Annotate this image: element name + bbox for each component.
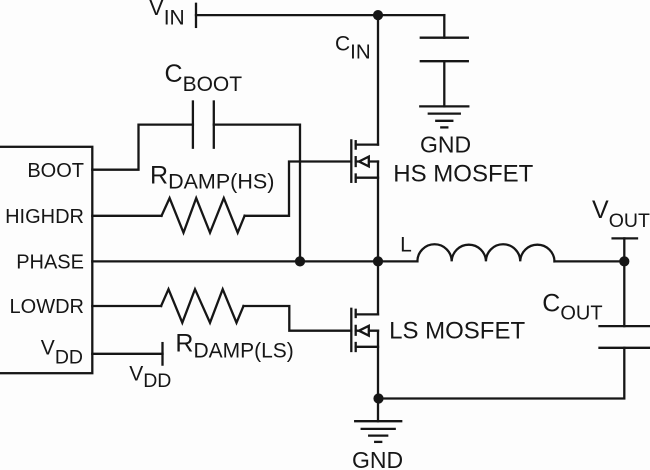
junction dot CBOOT/PHASE [295,256,305,266]
svg-text:GND: GND [420,131,471,157]
inductor L [417,244,554,261]
wire CBOOT to phase node [214,125,300,262]
wire LS source to ground [377,331,379,422]
svg-text:VOUT: VOUT [592,196,650,232]
ground (output) [355,421,401,442]
VOUT terminal bar [613,238,637,261]
svg-text:CIN: CIN [335,32,371,63]
node VOUT dot [619,256,629,266]
wire CIN to ground [443,61,445,106]
wire PHASE pin [92,260,378,262]
transistor HS MOSFET Q1 [351,140,378,181]
wire CIN drop [443,15,445,38]
IC driver box U1 [0,147,92,373]
svg-text:VDD: VDD [41,336,83,368]
wire RDAMP(LS) to LS gate [244,306,352,331]
wire inductor to VOUT node [555,260,625,262]
svg-text:CBOOT: CBOOT [165,60,243,96]
wire HIGHDR pin [92,215,161,217]
wire trunk VIN to HS drain [377,15,379,145]
resistor RDAMP(HS) [162,198,245,233]
svg-text:VIN: VIN [149,0,185,30]
svg-text:L: L [400,233,412,256]
svg-text:COUT: COUT [542,289,602,324]
VDD supply bar [161,343,163,365]
wire RDAMP(HS) to HS gate [245,162,352,216]
capacitor CIN [421,38,468,62]
node L (phase) dot [373,256,383,266]
svg-text:RDAMP(HS): RDAMP(HS) [150,161,274,193]
wire BOOT pin [92,125,193,170]
svg-text:LS MOSFET: LS MOSFET [389,317,525,344]
node VIN dot [373,10,383,20]
ground (input) [420,106,468,127]
wire COUT to bottom rail [379,348,625,399]
VIN supply bar [195,4,197,27]
wire LOWDR pin [92,305,161,307]
wire VDD pin [92,353,162,355]
svg-text:GND: GND [352,447,403,470]
svg-text:RDAMP(LS): RDAMP(LS) [175,330,293,363]
svg-text:PHASE: PHASE [16,252,84,274]
svg-text:BOOT: BOOT [27,160,84,182]
svg-text:HS MOSFET: HS MOSFET [393,161,533,188]
svg-text:VDD: VDD [129,363,171,393]
wire VIN top rail [196,14,444,16]
wire VOUT node to COUT [623,261,625,326]
wire phase to inductor [378,260,417,262]
svg-text:HIGHDR: HIGHDR [5,206,84,228]
resistor RDAMP(LS) [161,289,243,323]
svg-text:LOWDR: LOWDR [10,296,84,318]
capacitor COUT [600,326,650,348]
node ground dot [373,393,383,403]
transistor LS MOSFET Q2 [351,309,378,351]
capacitor CBOOT [193,102,214,148]
wire HS source to LS drain [377,162,379,315]
